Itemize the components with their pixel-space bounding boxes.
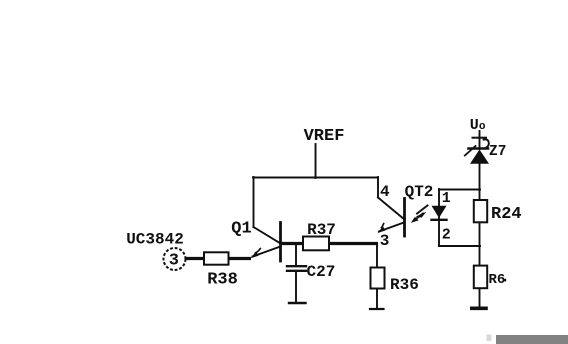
svg-text:C27: C27 (307, 263, 336, 281)
svg-text:R24: R24 (491, 205, 522, 224)
svg-text:R37: R37 (307, 221, 336, 239)
svg-text:R6: R6 (489, 272, 506, 288)
svg-text:1: 1 (442, 190, 451, 207)
svg-text:Z7: Z7 (489, 144, 506, 160)
svg-text:R38: R38 (207, 271, 238, 290)
svg-text:2: 2 (442, 226, 451, 243)
svg-text:3: 3 (380, 232, 390, 250)
svg-text:VREF: VREF (304, 127, 345, 146)
svg-text:Q1: Q1 (231, 219, 251, 238)
svg-text:UC3842: UC3842 (126, 230, 184, 248)
svg-text:QT2: QT2 (405, 183, 434, 201)
svg-text:4: 4 (380, 183, 390, 201)
svg-text:R36: R36 (390, 276, 419, 294)
svg-text:3: 3 (169, 252, 179, 271)
